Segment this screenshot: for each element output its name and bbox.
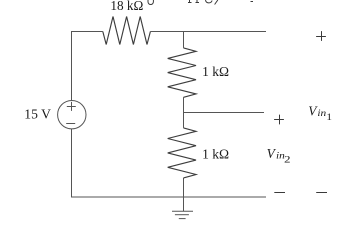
svg-text:1 kΩ: 1 kΩ <box>202 65 229 80</box>
svg-text:15 V: 15 V <box>24 108 51 123</box>
svg-text:18 kΩ: 18 kΩ <box>110 0 143 14</box>
svg-text:2: 2 <box>284 155 291 165</box>
svg-text:Vin: Vin <box>308 104 326 119</box>
svg-text:1: 1 <box>326 113 332 123</box>
svg-text:Vin: Vin <box>267 146 285 161</box>
svg-text:1 kΩ: 1 kΩ <box>202 147 229 162</box>
